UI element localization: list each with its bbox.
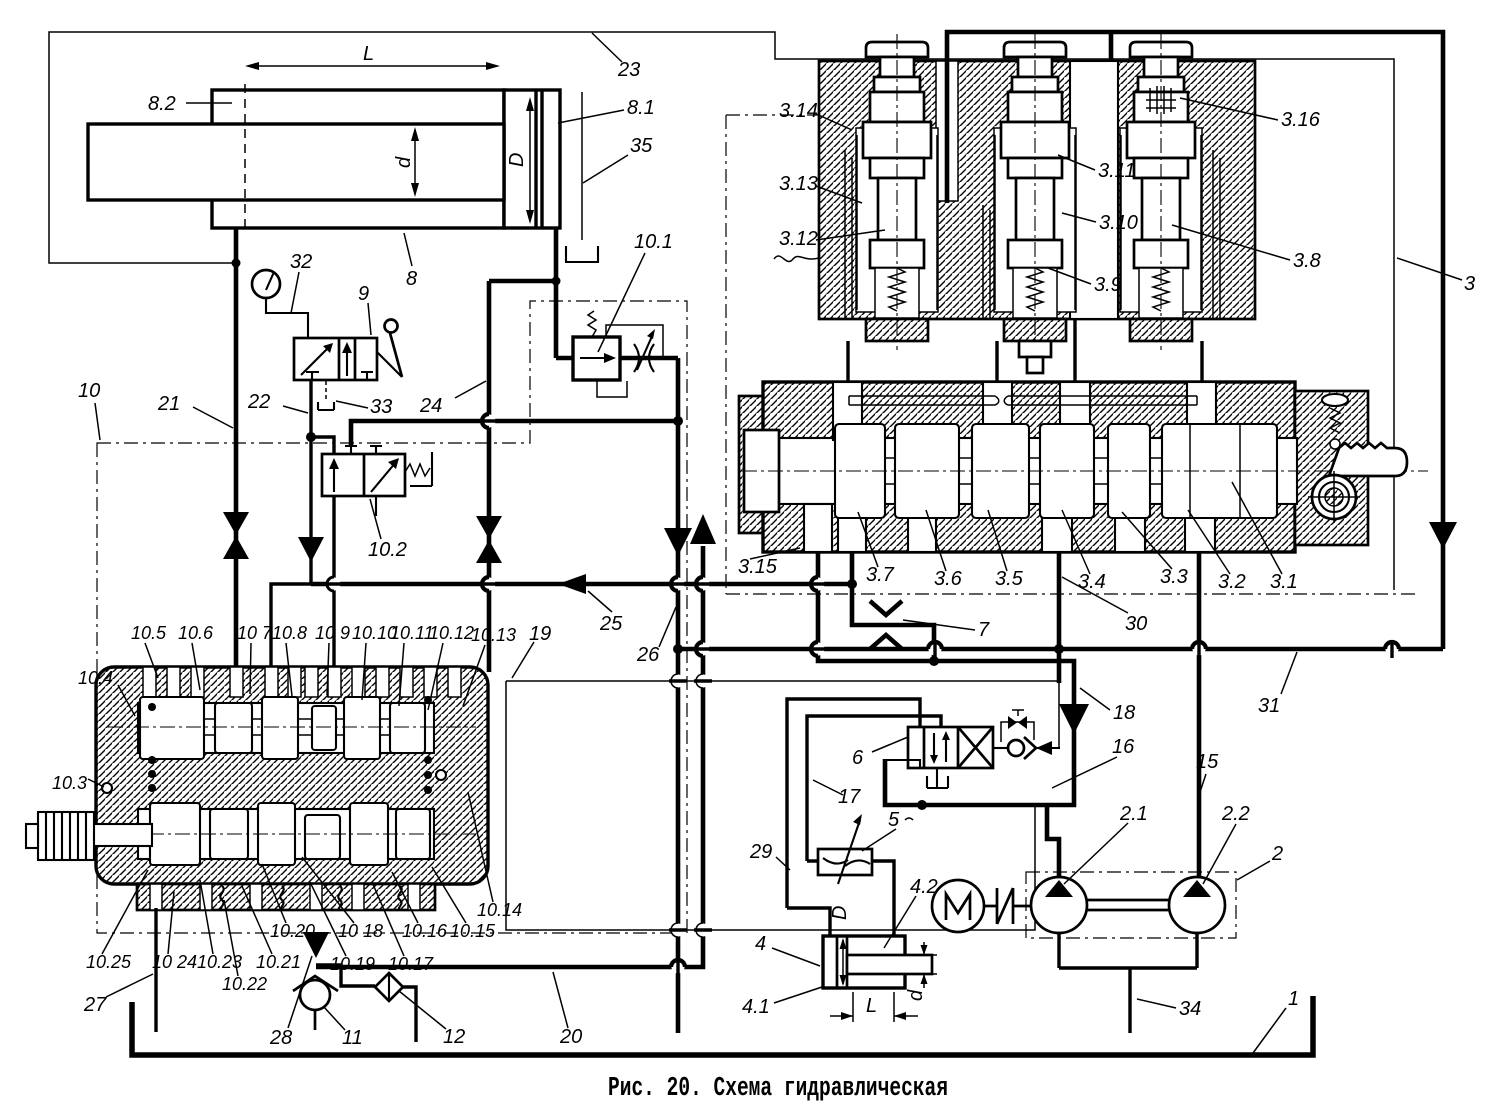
label 11	[323, 1006, 363, 1049]
thin channel lines inside block	[845, 150, 1220, 319]
arrow down on return riser 3	[1429, 522, 1457, 549]
bottom port slots	[150, 884, 162, 910]
svg-text:5: 5	[888, 809, 900, 831]
label 34	[1137, 998, 1201, 1020]
pump 11	[293, 976, 338, 1030]
drain line 35 with tank bracket	[566, 92, 598, 262]
svg-text:D: D	[506, 153, 528, 167]
pipes from cartridge block to spool valve	[848, 319, 1202, 382]
valve 2 bottom adapter	[1019, 341, 1051, 373]
label 15	[1196, 751, 1219, 798]
svg-text:10 9: 10 9	[315, 623, 350, 643]
svg-text:4.1: 4.1	[742, 996, 770, 1018]
stroke centerline (dashed)	[244, 84, 246, 232]
check-valve cartridge 3.8/3.16	[1121, 34, 1201, 350]
pilot circle 10.13 side	[436, 770, 446, 780]
wire 16 (to pump 2.1)	[1057, 552, 1062, 683]
tank bracket under valve 6	[927, 768, 948, 788]
svg-text:32: 32	[290, 251, 312, 273]
label 4.1	[742, 987, 822, 1018]
hydraulic cylinder 8 (barrel 8.2)	[212, 90, 504, 228]
svg-text:3.9: 3.9	[1094, 274, 1122, 296]
svg-text:10.15: 10.15	[450, 921, 496, 941]
svg-text:3.12: 3.12	[779, 228, 818, 250]
pump unit 2 boundary	[1026, 872, 1236, 938]
svg-text:3.10: 3.10	[1099, 212, 1138, 234]
label 10.17	[372, 882, 434, 974]
label 10.10	[352, 623, 397, 700]
label 10.19	[310, 882, 375, 974]
label 10.3	[52, 773, 104, 793]
label 10.25	[86, 870, 148, 972]
cylinder 4	[823, 936, 905, 988]
label 18	[1080, 688, 1135, 724]
label 24	[419, 381, 486, 417]
svg-text:2.1: 2.1	[1119, 803, 1148, 825]
pilot boundary frame 19	[506, 681, 1059, 930]
svg-text:10.2: 10.2	[368, 539, 407, 561]
lever of valve 9	[377, 320, 402, 378]
label 3.13	[779, 173, 862, 203]
label 35	[583, 135, 653, 183]
top port slots	[143, 667, 156, 697]
label 31	[1258, 652, 1297, 717]
left end plug 3.15	[744, 430, 779, 512]
pilot loop left of valve 6	[886, 760, 920, 803]
svg-text:L: L	[363, 43, 374, 65]
svg-text:10 7: 10 7	[237, 623, 273, 643]
svg-text:L: L	[866, 995, 877, 1017]
label 3.10	[1062, 212, 1138, 234]
svg-text:8: 8	[406, 268, 417, 290]
drain line 27	[154, 908, 157, 1032]
label 10.16	[392, 872, 448, 941]
valve block 10 body	[96, 667, 488, 910]
svg-text:10 24: 10 24	[152, 952, 197, 972]
svg-text:10.12: 10.12	[429, 623, 474, 643]
feed loop to valve 6	[787, 699, 941, 908]
svg-text:3.6: 3.6	[934, 568, 963, 590]
lower spool bore	[138, 809, 434, 859]
suction pipes	[1059, 933, 1197, 968]
label 17	[813, 780, 861, 808]
pressure relief valve 10.1	[556, 311, 663, 397]
svg-text:3.7: 3.7	[866, 564, 895, 586]
label 4.2	[884, 876, 938, 948]
svg-text:10.5: 10.5	[131, 623, 167, 643]
label 8.1	[558, 97, 655, 123]
wire from port 10.7	[271, 584, 311, 667]
wire from distributor port 3.7 down	[818, 552, 1074, 805]
svg-text:10.22: 10.22	[222, 974, 267, 994]
lower spool lands	[150, 803, 200, 865]
filter 12	[375, 973, 416, 1042]
svg-text:D: D	[829, 906, 851, 920]
label 19	[512, 623, 551, 678]
label 3.9	[1048, 268, 1122, 296]
arrow down on riser	[664, 528, 692, 556]
arrow 18 down	[1059, 704, 1089, 734]
bottom ports of distributor	[804, 504, 1215, 552]
label 3.12	[779, 228, 885, 250]
svg-text:10.21: 10.21	[256, 952, 301, 972]
label 10.2	[368, 499, 407, 561]
dash-dot boundary frame 3	[726, 115, 1420, 594]
tank / bottom border line 1	[132, 996, 1313, 1055]
check-valve cartridge 3.12-3.14	[857, 34, 937, 350]
svg-text:16: 16	[1112, 736, 1135, 758]
flow marker (double arrow) on wire 24 riser	[476, 516, 502, 563]
port ring on right cap	[1308, 471, 1360, 523]
svg-text:28: 28	[269, 1027, 292, 1049]
check valve with shutoff (after valve 6)	[993, 710, 1060, 759]
svg-text:3.13: 3.13	[779, 173, 818, 195]
piston rod 4.2	[847, 955, 932, 974]
svg-text:26: 26	[636, 644, 660, 666]
label 12	[399, 991, 465, 1048]
svg-text:Рис. 20. Схема гидравлическая: Рис. 20. Схема гидравлическая	[608, 1074, 948, 1104]
label 25	[588, 591, 623, 635]
svg-text:10.13: 10.13	[471, 625, 516, 645]
wire junction to valve 10.2	[311, 437, 334, 454]
pump 2.1 feed riser	[1047, 805, 1059, 878]
label 10.14	[468, 792, 522, 920]
svg-text:22: 22	[247, 391, 270, 413]
main return line	[678, 647, 1443, 652]
spring of valve 10.2	[405, 452, 432, 486]
spool stems block 10	[204, 719, 215, 735]
svg-text:19: 19	[529, 623, 551, 645]
svg-text:3.4: 3.4	[1078, 571, 1106, 593]
label 10.13	[463, 625, 516, 706]
dimension L (cylinder 4)	[830, 992, 918, 1022]
svg-text:25: 25	[599, 613, 623, 635]
coupling	[984, 888, 1031, 924]
label 21	[157, 393, 233, 428]
label 10.23	[197, 880, 242, 972]
label 10.20	[262, 864, 315, 941]
label 3.4	[1062, 510, 1106, 593]
top ports of distributor	[833, 382, 1216, 440]
wires throttle 5 to cylinder 4	[787, 861, 894, 936]
label 3.15	[738, 548, 800, 578]
coupling symbol 7	[870, 601, 902, 649]
svg-text:10.3: 10.3	[52, 773, 87, 793]
pilot dots right	[424, 696, 432, 704]
svg-text:21: 21	[157, 393, 180, 415]
label 4	[755, 933, 820, 966]
pilot pipe into block (squiggle)	[774, 256, 819, 261]
svg-text:6: 6	[852, 747, 864, 769]
svg-text:4: 4	[755, 933, 766, 955]
label 10.22	[222, 900, 267, 994]
svg-text:3.11: 3.11	[1098, 160, 1135, 182]
dimension D (cylinder 8)	[506, 97, 534, 224]
label 29	[749, 841, 790, 870]
svg-text:3.3: 3.3	[1160, 566, 1188, 588]
svg-text:17: 17	[838, 786, 861, 808]
label 10.8	[272, 623, 307, 696]
bottom port squiggles	[220, 886, 223, 910]
branch stub into block	[1109, 32, 1114, 61]
label 3.1	[1232, 482, 1298, 593]
check-valve cartridge 3.9-3.11	[995, 34, 1075, 350]
wire gauge to valve 9	[266, 298, 308, 338]
svg-text:20: 20	[559, 1026, 582, 1048]
label 3.7	[858, 512, 895, 586]
svg-text:10 18: 10 18	[338, 921, 383, 941]
svg-text:33: 33	[370, 396, 392, 418]
label 8	[404, 233, 417, 290]
arrow down on wire below valve 9	[298, 537, 324, 562]
label 10.11	[390, 623, 434, 706]
label 3.5	[988, 510, 1024, 590]
svg-text:15: 15	[1196, 751, 1219, 773]
lower spool centerline	[45, 833, 476, 835]
spool distributor housing	[739, 382, 1368, 552]
junction dot wire24/riser	[673, 416, 683, 426]
threaded shaft end	[1329, 443, 1407, 476]
wire stub valve 10.2 drain	[375, 496, 377, 516]
svg-text:10.8: 10.8	[272, 623, 307, 643]
spline washer stack	[26, 812, 94, 860]
svg-text:24: 24	[419, 395, 442, 417]
dimension d (cylinder 8)	[393, 127, 419, 197]
label 5	[862, 809, 913, 851]
svg-text:10.17: 10.17	[388, 954, 434, 974]
spool stems	[885, 458, 895, 484]
breather 3.16 cross-hatch dome	[1146, 86, 1176, 114]
cartridge cavities (white)	[856, 128, 938, 312]
cartridge valve block (subsystem 3) body	[819, 61, 1255, 319]
svg-text:31: 31	[1258, 695, 1280, 717]
riser continuation of wire 24/10.1	[676, 421, 681, 1033]
directional valve 9 (manual lever)	[294, 338, 377, 380]
dimension L (cylinder 8)	[245, 43, 500, 70]
label 2.2	[1203, 803, 1250, 884]
svg-text:3.5: 3.5	[995, 568, 1024, 590]
svg-text:9: 9	[358, 283, 369, 305]
dash-dot boundary frame 10	[97, 301, 687, 933]
svg-text:29: 29	[749, 841, 772, 863]
svg-text:2: 2	[1271, 843, 1283, 865]
svg-text:30: 30	[1125, 613, 1147, 635]
wire 25 (return to block 10)	[311, 582, 852, 587]
label 8.2	[148, 93, 232, 115]
electric motor M	[932, 880, 984, 932]
svg-text:3.2: 3.2	[1218, 571, 1246, 593]
svg-text:12: 12	[443, 1026, 465, 1048]
svg-text:7: 7	[978, 619, 990, 641]
piston 8.1 and end sections	[504, 90, 560, 228]
label 3.8	[1172, 225, 1321, 272]
svg-text:d: d	[905, 989, 927, 1001]
flow marker (double arrow) on wire 21	[223, 512, 249, 559]
wire 15 (to pump 2.2)	[1197, 552, 1202, 878]
svg-text:3.15: 3.15	[738, 556, 778, 578]
junction dot at 922,805	[917, 800, 927, 810]
throttle 5	[818, 814, 872, 884]
label 3.11	[1058, 155, 1135, 182]
svg-text:2.2: 2.2	[1221, 803, 1250, 825]
wire 21 from cylinder left port	[234, 228, 239, 667]
label 27	[83, 974, 153, 1016]
label 3	[1397, 258, 1475, 295]
supply pipe along top of subsystem 3	[947, 32, 1443, 649]
label 10	[78, 380, 100, 440]
label 10 9	[315, 623, 350, 695]
junction dot at 852,584	[847, 579, 857, 589]
junction dot cylinder-left / line 23	[232, 259, 241, 268]
suction line 28 with arrow	[316, 965, 375, 986]
label 3.14	[779, 100, 852, 130]
distributor centerline	[742, 470, 1428, 472]
svg-text:35: 35	[630, 135, 653, 157]
svg-text:3.16: 3.16	[1281, 109, 1321, 131]
wire 24 horizontal	[351, 421, 678, 447]
internal drilling channel	[849, 396, 1197, 405]
svg-text:10.4: 10.4	[78, 668, 113, 688]
upper spool bore	[138, 703, 434, 753]
svg-text:3.8: 3.8	[1293, 250, 1321, 272]
svg-text:23: 23	[617, 59, 640, 81]
pump 2.1	[1031, 877, 1087, 933]
label 10.15	[432, 867, 496, 941]
wire with coupling 7	[852, 552, 934, 661]
label 30	[1062, 577, 1147, 635]
label 2	[1237, 843, 1283, 880]
junction dot main line x678	[673, 644, 683, 654]
svg-text:8.2: 8.2	[148, 93, 176, 115]
label 10.1	[598, 231, 673, 352]
piston rod of cylinder 8	[88, 124, 504, 200]
svg-text:1: 1	[1288, 988, 1299, 1010]
pump 2.2	[1169, 877, 1225, 933]
label 3.6	[926, 510, 963, 590]
shaft through left wall	[92, 824, 152, 846]
wire frame/drain line 23	[49, 32, 1394, 590]
spool lands	[835, 424, 885, 518]
svg-text:10.1: 10.1	[634, 231, 673, 253]
pilot valve 10.2	[322, 446, 405, 496]
svg-text:8.1: 8.1	[627, 97, 655, 119]
wire 20 riser with up arrow	[316, 546, 703, 967]
svg-text:3.1: 3.1	[1270, 571, 1298, 593]
pilot dots left	[148, 703, 156, 711]
vented tank 33 under valve 9	[318, 381, 334, 410]
junction dot on wire at 934,661	[929, 656, 939, 666]
dimension d (cylinder 4)	[905, 942, 937, 1001]
svg-text:10.11: 10.11	[390, 623, 434, 643]
label 2.1	[1064, 803, 1148, 884]
pilot line to check valve	[1058, 681, 1060, 748]
pilot circle 10.3	[102, 783, 112, 793]
svg-text:34: 34	[1179, 998, 1201, 1020]
pump shaft	[1087, 900, 1169, 910]
upper spool centerline	[108, 726, 476, 728]
label 10 24	[152, 892, 197, 972]
label 10 7	[237, 623, 273, 694]
label 32	[290, 251, 312, 313]
pressure gauge 32	[252, 270, 280, 298]
label 22	[247, 391, 308, 413]
label 23	[592, 33, 640, 81]
dimension D (cylinder 4)	[829, 906, 851, 986]
label 10.12	[428, 623, 474, 710]
svg-text:27: 27	[83, 994, 107, 1016]
svg-text:11: 11	[342, 1027, 363, 1049]
svg-text:10.16: 10.16	[402, 921, 448, 941]
svg-text:d: d	[393, 156, 415, 168]
svg-text:3.14: 3.14	[779, 100, 818, 122]
label 20	[553, 972, 582, 1048]
svg-text:18: 18	[1113, 702, 1135, 724]
wire valve 10.2 to block port	[332, 496, 335, 667]
label 9	[358, 283, 371, 335]
wire from cylinder right port	[489, 228, 556, 672]
adjusting screw on right cap	[1322, 394, 1348, 449]
throttle on line after 10.1	[620, 329, 678, 421]
crossing hops	[483, 415, 496, 428]
label 10.5	[131, 623, 167, 678]
label 6	[852, 737, 908, 769]
label 10.4	[78, 668, 135, 716]
label 7	[903, 619, 990, 641]
arrow left on wire 25	[558, 574, 586, 594]
label 10 18	[302, 857, 383, 941]
label 1	[1253, 988, 1299, 1053]
label 16	[1052, 736, 1135, 788]
label 28	[269, 956, 312, 1049]
label 10.6	[178, 623, 214, 690]
svg-text:10.6: 10.6	[178, 623, 214, 643]
spool bore	[779, 438, 1297, 504]
upper spool lands	[140, 697, 204, 759]
label 3.2	[1188, 510, 1246, 593]
svg-text:10.25: 10.25	[86, 952, 132, 972]
label 26	[636, 607, 676, 666]
junction dot 22	[306, 432, 316, 442]
label 3.16	[1180, 98, 1321, 131]
solenoid valve 6	[908, 727, 993, 768]
svg-text:3: 3	[1464, 273, 1475, 295]
svg-text:10: 10	[78, 380, 100, 402]
junction dot at (556,281)	[552, 277, 561, 286]
label 33	[336, 396, 392, 418]
suction line 34	[1128, 968, 1131, 1033]
wire valve9 to junction 22	[309, 380, 312, 584]
label 10.21	[242, 886, 301, 972]
label 3.3	[1122, 512, 1188, 588]
svg-text:10.14: 10.14	[477, 900, 522, 920]
